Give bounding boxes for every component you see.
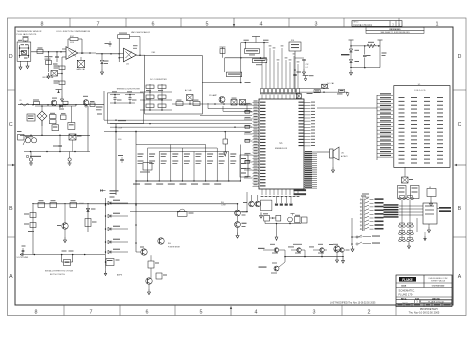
- pushbutton S5: [399, 231, 414, 235]
- wire op-amp output: [78, 52, 96, 54]
- capacitor C56: [293, 72, 301, 76]
- svg-text:5: 5: [200, 310, 203, 316]
- title block cage row: [401, 284, 444, 287]
- svg-text:AC CAL: AC CAL: [185, 89, 192, 92]
- svg-text:7: 7: [90, 310, 93, 316]
- buzzer LS1: [330, 147, 349, 167]
- resistor R263: [54, 64, 66, 96]
- transformer T1: [23, 136, 37, 145]
- ic U8: [427, 187, 436, 206]
- U1 top pin wires: [261, 45, 300, 94]
- ground: [428, 224, 431, 233]
- svg-text:7: 7: [97, 21, 100, 27]
- svg-text:D: D: [458, 54, 462, 60]
- supply rail symbol: [56, 90, 62, 94]
- LCD display U5: [394, 84, 450, 168]
- bias box: [261, 200, 272, 211]
- supply symbol: [303, 75, 314, 81]
- test point TP1: [252, 37, 260, 43]
- svg-text:A: A: [9, 274, 13, 280]
- svg-text:6: 6: [146, 310, 149, 316]
- resistor R265: [54, 81, 66, 85]
- wire: [350, 46, 386, 68]
- note cold junction compensation: [56, 30, 91, 33]
- note amps: [104, 268, 123, 277]
- ground: [275, 224, 278, 241]
- wire function bus: [105, 198, 107, 268]
- divider resistor R33: [172, 154, 178, 165]
- svg-text:JOHN FLUKE MFG CO INC: JOHN FLUKE MFG CO INC: [428, 278, 448, 280]
- wire analog row: [172, 103, 252, 105]
- wire: [241, 40, 269, 44]
- thermistor RT2 loop: [62, 251, 74, 266]
- zone labels right: [458, 54, 462, 280]
- filter cluster C64: [92, 114, 102, 120]
- resistor R45: [178, 209, 194, 216]
- svg-text:1.07M: 1.07M: [221, 204, 226, 206]
- crystal Y2: [263, 213, 281, 221]
- ground: [303, 69, 306, 75]
- resistor R267 feedback: [118, 33, 140, 56]
- wire supply bus: [20, 121, 90, 136]
- thermocouple filter enclosure: [108, 93, 144, 124]
- note l-div: [79, 203, 84, 205]
- LCD segment table: [399, 97, 444, 164]
- svg-text:3: 3: [315, 21, 318, 27]
- earth ground: [29, 152, 33, 166]
- converter network: [140, 84, 172, 111]
- resistor R60: [35, 105, 76, 118]
- diode CR10: [108, 213, 128, 218]
- svg-text:LAST-MODIFIED:Thu Nov 10 08:52: LAST-MODIFIED:Thu Nov 10 08:52:50 2005: [330, 301, 376, 304]
- ground: [19, 61, 22, 69]
- svg-text:BUT NOT BOTH: BUT NOT BOTH: [50, 274, 65, 276]
- capacitor C63: [68, 106, 75, 129]
- divider resistor R30: [138, 154, 144, 165]
- wire: [135, 181, 137, 252]
- capacitor C60: [53, 52, 60, 65]
- diode CR9: [108, 200, 128, 205]
- wire REF: [136, 52, 156, 56]
- resistor R75: [240, 100, 248, 111]
- transistor Q11: [255, 195, 261, 207]
- resistor R263a: [45, 52, 53, 72]
- svg-text:REVISIONS: REVISIONS: [390, 29, 402, 31]
- resistor R61: [50, 113, 67, 124]
- Fluke logo: [399, 277, 416, 282]
- input network row: [18, 100, 104, 106]
- wires U1 left bus: [244, 103, 253, 178]
- thermistor RT20: [22, 51, 27, 55]
- resistor R56 boxed label: [252, 59, 266, 65]
- trimmer R70 ac cal: [185, 89, 193, 104]
- zone ticks right: [453, 90, 466, 237]
- resistor R268 input: [33, 100, 40, 105]
- svg-text:4: 4: [255, 310, 258, 316]
- note dc cal: [327, 82, 334, 85]
- keypad bus: [399, 200, 423, 241]
- resistor R261: [37, 48, 43, 54]
- wire bus line 2: [104, 119, 252, 121]
- svg-text:U8: U8: [429, 187, 431, 189]
- note volts ohms: [17, 257, 29, 259]
- divider resistor R37: [219, 154, 225, 165]
- switch rows lower: [356, 235, 380, 245]
- supply symbol: [349, 40, 354, 46]
- wire converter to ic: [208, 103, 252, 111]
- wire LCD trunk: [317, 95, 377, 160]
- microcontroller U1: [259, 99, 304, 189]
- note r44: [221, 202, 226, 207]
- wire range bus: [32, 203, 237, 205]
- wire bus line 4: [110, 126, 252, 128]
- svg-text:DC CONVERTER: DC CONVERTER: [150, 79, 167, 81]
- transistor Q1: [57, 205, 68, 237]
- zener CR2: [350, 60, 360, 68]
- transistor Q21: [288, 244, 305, 257]
- wire bus line 3: [110, 123, 252, 125]
- dc converter enclosure: [145, 56, 203, 115]
- note x10 amp: [209, 94, 218, 97]
- supply labels: [118, 128, 124, 164]
- svg-text:C: C: [458, 122, 462, 128]
- resistor R71: [176, 100, 183, 106]
- ground: [342, 258, 345, 264]
- capacitor C3: [363, 46, 371, 68]
- proprietary note: [409, 307, 440, 314]
- resistor network R58: [289, 40, 301, 92]
- svg-text:X10 AMP: X10 AMP: [209, 94, 218, 97]
- regulator VR60: [69, 134, 82, 152]
- zener VR20: [100, 53, 108, 69]
- U1 bottom right labels: [294, 189, 307, 195]
- svg-text:D: D: [9, 54, 13, 60]
- op-amp U25: [118, 39, 136, 66]
- diode CR25: [59, 105, 66, 110]
- resistor R15: [85, 219, 97, 227]
- diode CR11: [108, 226, 128, 231]
- title block number row: [402, 300, 452, 304]
- title block address text: [428, 278, 448, 283]
- svg-text:CAGE: CAGE: [401, 284, 407, 287]
- capacitor C81: [411, 186, 420, 199]
- rotary switch S1: [360, 196, 383, 232]
- note temperature sensor: [17, 30, 42, 36]
- svg-text:VOLTS/OHMS: VOLTS/OHMS: [17, 257, 29, 259]
- svg-text:INSTALL EITHER RT2 OR R48: INSTALL EITHER RT2 OR R48: [45, 270, 74, 273]
- ground: [336, 257, 339, 263]
- ground: [47, 73, 50, 79]
- divider labels: [133, 184, 221, 185]
- wire: [237, 203, 239, 210]
- ground: [148, 284, 151, 294]
- wire: [317, 151, 330, 153]
- svg-text:C: C: [9, 122, 13, 128]
- svg-text:FLUKE 179-U01: FLUKE 179-U01: [428, 302, 445, 304]
- svg-text:FLUKE: FLUKE: [402, 278, 413, 282]
- svg-text:8: 8: [41, 21, 44, 27]
- svg-text:B: B: [458, 206, 462, 212]
- test arrow: [346, 93, 349, 96]
- ground: [64, 237, 67, 243]
- transistor Q6: [146, 268, 152, 284]
- title block drawing title: [399, 289, 416, 297]
- svg-text:8: 8: [35, 310, 38, 316]
- resonator Y3: [288, 214, 307, 224]
- resistor R52 boxed label: [225, 58, 251, 83]
- ground: [61, 96, 64, 102]
- svg-text:6: 6: [152, 21, 155, 27]
- zone ticks left: [8, 90, 16, 237]
- ground: [101, 69, 104, 75]
- title block header row: [401, 297, 440, 300]
- resistor R55 boxed label: [244, 43, 259, 56]
- divider resistor R31: [149, 154, 155, 165]
- LCD segment wires: [377, 93, 393, 157]
- input labels: [100, 189, 119, 198]
- ground: [260, 213, 263, 219]
- resistor R74: [231, 98, 237, 105]
- zone ticks bottom: [64, 305, 396, 316]
- title block: [396, 275, 452, 307]
- svg-text:A-PIEZO: A-PIEZO: [341, 155, 348, 158]
- range divider network: [135, 145, 241, 182]
- connector J61: [17, 131, 24, 140]
- trimmer R264 offset cal: [42, 71, 63, 80]
- svg-text:LS1: LS1: [341, 153, 344, 155]
- divider resistor R36: [207, 154, 213, 165]
- wire shunt bus: [284, 256, 344, 258]
- note vac ohm scaling: [131, 31, 151, 34]
- wire bus line 1: [200, 114, 252, 116]
- U1 right pins lower segment bus: [304, 151, 317, 188]
- resonator Y1: [402, 167, 414, 183]
- zener CR5: [86, 205, 95, 232]
- svg-text:C32: C32: [306, 64, 309, 66]
- svg-text:GAIN CAL: GAIN CAL: [76, 68, 85, 71]
- resistor R14: [24, 223, 36, 228]
- divider resistor R32: [161, 154, 167, 165]
- svg-text:REV A: REV A: [401, 297, 407, 300]
- charger label: [26, 155, 41, 158]
- divider resistor R35: [196, 154, 202, 165]
- switch bracket: [351, 218, 362, 246]
- svg-text:0.1: 0.1: [306, 67, 308, 69]
- pushbutton S3: [399, 196, 414, 200]
- capacitor C55: [110, 91, 122, 103]
- resistor R10: [38, 200, 45, 207]
- revision note box: [366, 27, 424, 34]
- U1 top pins: [261, 92, 300, 99]
- svg-text:0 XX XXX 0000: 0 XX XXX 0000: [432, 285, 445, 287]
- transistor Q23: [333, 244, 350, 257]
- wire: [96, 53, 119, 55]
- earth ground: [68, 152, 72, 166]
- divider resistor R34: [184, 154, 190, 165]
- resistor column R47: [240, 155, 248, 177]
- resistor R12: [70, 200, 77, 207]
- svg-text:Thu Nov 10 08:52:50 2005: Thu Nov 10 08:52:50 2005: [409, 311, 440, 315]
- pushbutton S6: [399, 238, 414, 242]
- resistor R7: [90, 101, 95, 107]
- svg-text:U25: U25: [126, 64, 129, 66]
- resistor R29: [223, 132, 228, 152]
- note dc converter: [150, 79, 167, 81]
- transistor Q30: [219, 97, 225, 105]
- resistor R11: [50, 200, 57, 207]
- U1 bottom pins: [261, 189, 300, 197]
- transistor Q5: [157, 234, 164, 244]
- resistor R262 feedback: [68, 36, 82, 53]
- trimmer R266 gain cal: [76, 57, 85, 71]
- wire: [130, 192, 248, 212]
- wire volts ohms: [20, 253, 105, 256]
- zone labels left: [9, 54, 13, 280]
- keypad label block: [384, 204, 399, 218]
- resistor R72: [193, 100, 200, 106]
- resistor R2 zigzag: [367, 42, 375, 48]
- svg-text:OFFSET CAL: OFFSET CAL: [42, 76, 54, 79]
- transistor Q7: [259, 257, 286, 274]
- divider resistor R38: [230, 154, 236, 165]
- capacitor C80: [398, 186, 407, 199]
- note install either: [45, 270, 74, 277]
- title block scale row: [398, 303, 451, 306]
- connector stubs: [437, 207, 451, 212]
- transistor Q20: [258, 244, 285, 257]
- svg-text:FMM8051J3: FMM8051J3: [275, 148, 288, 150]
- svg-text:COLD JUNCTION COMPENSATION: COLD JUNCTION COMPENSATION: [56, 30, 91, 33]
- connector J20: [17, 40, 31, 62]
- keypad ic U7: [423, 203, 437, 224]
- svg-text:FLUKE 179: FLUKE 179: [399, 293, 413, 297]
- resistor R13: [24, 205, 36, 255]
- svg-text:SCHEMATIC,: SCHEMATIC,: [399, 289, 416, 293]
- svg-text:R5: R5: [20, 100, 22, 102]
- resistor R37 boxed: [337, 89, 344, 94]
- zone labels bottom: [35, 310, 371, 316]
- fuse F1: [106, 259, 120, 266]
- diode CR13: [108, 249, 128, 254]
- resistor R53: [220, 47, 226, 58]
- trimmer R62: [52, 125, 59, 131]
- ground: [236, 233, 239, 239]
- zone labels top: [41, 21, 439, 27]
- svg-text:PROPRIETARY: PROPRIETARY: [420, 307, 439, 311]
- wire: [240, 43, 242, 83]
- svg-text:FOLD-LCD: FOLD-LCD: [415, 90, 426, 92]
- svg-text:2: 2: [368, 310, 371, 316]
- note 4 MHz: [362, 194, 370, 200]
- svg-text:THERMOCOUPLE FILTER: THERMOCOUPLE FILTER: [117, 88, 141, 90]
- ground: [351, 246, 354, 252]
- note batt: [28, 231, 34, 232]
- transistor Q22: [309, 244, 327, 257]
- svg-text:DC CAL: DC CAL: [327, 82, 334, 85]
- wire: [96, 91, 135, 120]
- wire converter to chain: [202, 82, 241, 84]
- trimmer R30 dc cal: [299, 84, 347, 93]
- svg-text:3: 3: [313, 310, 316, 316]
- U1 left pins: [253, 101, 266, 187]
- U1 bottom stubs: [275, 196, 293, 206]
- bridge rectifier CR60: [37, 106, 47, 126]
- svg-text:AMPS: AMPS: [117, 274, 123, 277]
- resistor R268b: [133, 45, 138, 49]
- resistor R36 boxed: [307, 90, 321, 94]
- wire: [225, 43, 267, 59]
- transistor Q8: [329, 244, 340, 257]
- last modified note: [330, 301, 376, 304]
- transistor Q4: [235, 216, 247, 233]
- sheet id box FLUKE 179-U01: [352, 21, 402, 27]
- pushbutton S4: [399, 223, 414, 227]
- transistor Q21: [83, 96, 89, 108]
- capacitor C32: [295, 58, 309, 69]
- U1 right pins upper: [299, 102, 316, 147]
- supply symbol: [378, 40, 383, 46]
- test point arrow: [224, 152, 227, 156]
- wire: [265, 221, 301, 224]
- capacitor C62: [53, 135, 62, 151]
- ground: [424, 232, 426, 240]
- zener CR1: [341, 46, 359, 59]
- svg-text:4: 4: [260, 21, 263, 27]
- transistor Q2: [136, 247, 147, 256]
- wire divider to bus: [135, 131, 137, 145]
- resistor R260: [23, 37, 29, 43]
- resistor R48a: [22, 246, 26, 255]
- ground: [350, 70, 353, 76]
- svg-text:R58: R58: [291, 40, 294, 42]
- resistor R39: [148, 255, 159, 268]
- wire: [31, 51, 66, 53]
- svg-text:B: B: [9, 206, 13, 212]
- svg-text:VAC/OHM SCALE,R: VAC/OHM SCALE,R: [131, 31, 151, 34]
- svg-text:PLUG JACK INPUTS: PLUG JACK INPUTS: [17, 33, 37, 36]
- wire: [24, 106, 90, 152]
- capacitor C24: [105, 41, 112, 47]
- resistor R41: [156, 273, 167, 279]
- capacitor C61: [27, 114, 35, 121]
- svg-text:TEMPERATURE SENSOR: TEMPERATURE SENSOR: [17, 30, 42, 33]
- op-amp U26: [62, 47, 84, 64]
- wire: [350, 45, 380, 47]
- transistor Q10: [243, 195, 254, 207]
- wire bus line 5: [104, 131, 252, 133]
- svg-text:R44: R44: [221, 202, 224, 204]
- diode CR12: [108, 239, 128, 244]
- svg-text:1: 1: [436, 21, 439, 27]
- transistor Q20: [51, 98, 57, 106]
- capacitor C57: [125, 91, 137, 103]
- svg-text:R262: R262: [70, 36, 74, 38]
- zone ticks top: [70, 18, 399, 27]
- svg-text:--------: --------: [402, 302, 408, 304]
- resistor R6: [63, 101, 68, 104]
- ground: [408, 241, 411, 249]
- svg-text:SEE SHEET 1 FOR REVISIONS: SEE SHEET 1 FOR REVISIONS: [380, 32, 410, 34]
- note thermocouple filter: [117, 88, 141, 90]
- svg-text:R40: R40: [168, 243, 171, 245]
- capacitor C56b: [296, 94, 301, 99]
- svg-text:5: 5: [206, 21, 209, 27]
- svg-text:A: A: [458, 274, 462, 280]
- trimmer C45: [140, 163, 152, 173]
- svg-text:POWER SENSE: POWER SENSE: [168, 247, 180, 249]
- note power sense: [168, 243, 180, 249]
- svg-text:FLUKE 179-U01: FLUKE 179-U01: [354, 24, 373, 27]
